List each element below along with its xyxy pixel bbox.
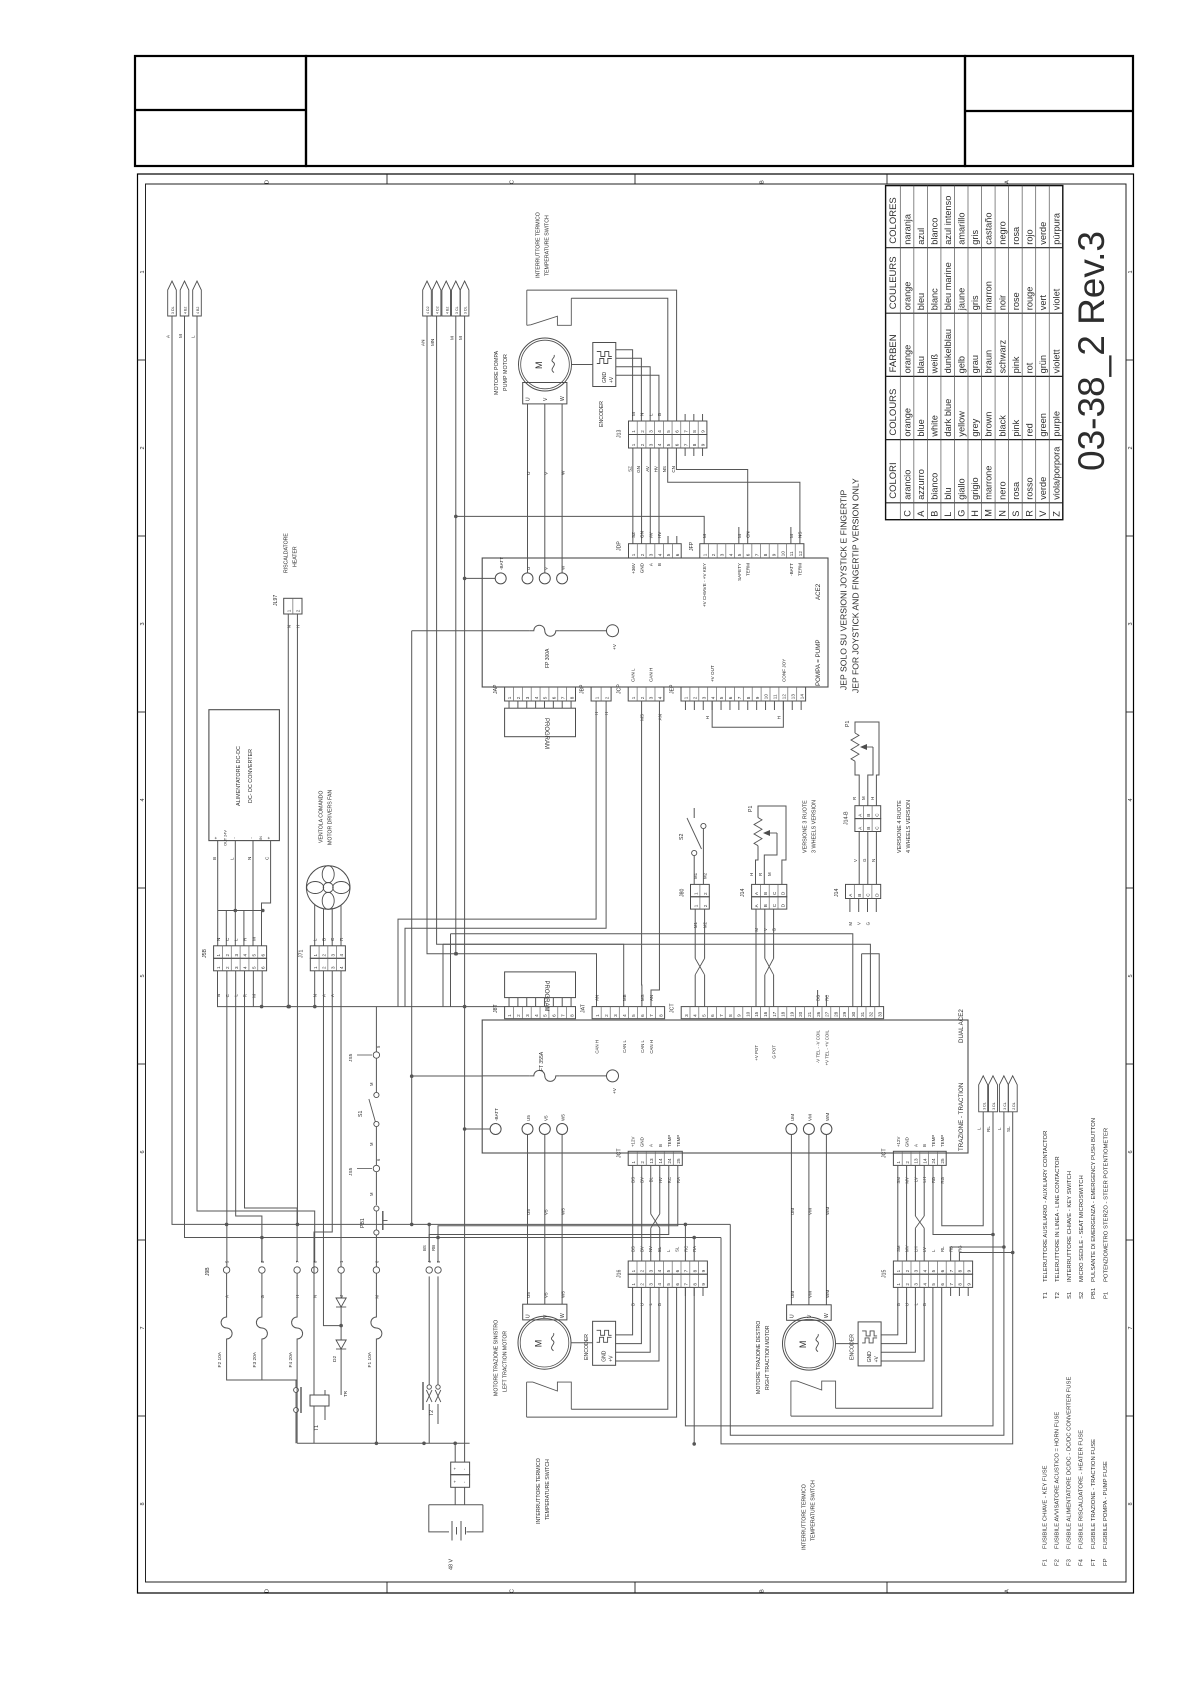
svg-text:2: 2 xyxy=(1128,446,1134,449)
svg-text:INTERRUTTORE CHIAVE - KEY SWIT: INTERRUTTORE CHIAVE - KEY SWITCH xyxy=(1067,1171,1073,1282)
svg-text:L: L xyxy=(666,1249,671,1252)
long horizontal wire A xyxy=(227,1223,731,1225)
svg-text:26: 26 xyxy=(816,1011,821,1017)
svg-text:32: 32 xyxy=(869,1011,874,1017)
svg-text:6: 6 xyxy=(746,553,751,556)
svg-text:1: 1 xyxy=(684,696,689,699)
svg-text:MOTOR DRIVERS FAN: MOTOR DRIVERS FAN xyxy=(328,790,334,845)
svg-text:+V TEL - +V COIL: +V TEL - +V COIL xyxy=(824,1029,829,1065)
svg-text:-: - xyxy=(231,837,236,839)
svg-text:OUT 24V: OUT 24V xyxy=(224,830,228,846)
svg-text:blu: blu xyxy=(943,488,953,500)
DC-DC converter box xyxy=(209,710,280,841)
svg-text:5: 5 xyxy=(666,553,671,556)
connector JCP xyxy=(628,687,664,701)
svg-text:FARBEN: FARBEN xyxy=(888,334,899,372)
svg-text:PUMP MOTOR: PUMP MOTOR xyxy=(503,354,509,391)
svg-text:azul: azul xyxy=(916,228,926,245)
svg-text:A: A xyxy=(848,893,853,897)
svg-text:SZ: SZ xyxy=(631,532,636,538)
svg-text:5: 5 xyxy=(719,696,724,699)
svg-text:J9B: J9B xyxy=(205,1267,211,1276)
svg-text:S: S xyxy=(1011,511,1021,517)
svg-text:B: B xyxy=(857,894,862,897)
svg-text:S1: S1 xyxy=(1067,1292,1073,1299)
svg-text:blanc: blanc xyxy=(930,288,940,310)
connector JBP xyxy=(591,687,611,701)
svg-text:27: 27 xyxy=(825,1011,830,1017)
svg-text:13: 13 xyxy=(790,694,795,700)
svg-text:blue: blue xyxy=(916,419,926,436)
svg-text:GND: GND xyxy=(602,372,608,384)
svg-text:grau: grau xyxy=(970,355,980,373)
svg-text:3 DL: 3 DL xyxy=(992,1102,996,1110)
svg-text:7: 7 xyxy=(140,1326,146,1329)
svg-text:5: 5 xyxy=(631,1014,636,1017)
svg-text:-BATT: -BATT xyxy=(499,557,504,570)
svg-text:VERSIONE 3 RUOTE: VERSIONE 3 RUOTE xyxy=(803,800,809,853)
svg-text:9: 9 xyxy=(737,1014,742,1017)
svg-text:11: 11 xyxy=(773,694,778,699)
svg-text:JCT: JCT xyxy=(882,1148,888,1158)
svg-text:C: C xyxy=(510,180,516,184)
svg-text:1: 1 xyxy=(507,696,512,699)
svg-text:17: 17 xyxy=(772,1011,777,1017)
svg-text:RG: RG xyxy=(957,1245,962,1252)
svg-text:U: U xyxy=(526,567,531,570)
connector J14-B (4 wheels) xyxy=(855,806,881,819)
svg-text:6: 6 xyxy=(675,1269,680,1272)
svg-text:16: 16 xyxy=(763,1011,768,1017)
svg-text:1: 1 xyxy=(631,430,636,433)
wire from flag 3DL xyxy=(172,316,227,1224)
svg-text:castaño: castaño xyxy=(984,213,994,245)
svg-text:F4: F4 xyxy=(1079,1558,1085,1566)
svg-text:8: 8 xyxy=(692,443,697,446)
svg-text:W: W xyxy=(561,470,567,475)
contactor T2 contacts xyxy=(422,1382,424,1410)
svg-text:6: 6 xyxy=(675,1283,680,1286)
svg-text:2: 2 xyxy=(516,696,521,699)
svg-text:7: 7 xyxy=(683,430,688,433)
svg-text:CAN L: CAN L xyxy=(631,668,636,682)
left traction motor xyxy=(518,1316,571,1369)
svg-text:2: 2 xyxy=(640,1283,645,1286)
wires J16 to encoder (left) xyxy=(615,1287,632,1335)
svg-text:WM: WM xyxy=(825,1113,830,1121)
svg-text:M: M xyxy=(178,334,183,338)
svg-text:1: 1 xyxy=(693,892,698,895)
svg-text:V: V xyxy=(807,1314,813,1318)
right encoder xyxy=(858,1322,881,1366)
svg-text:4: 4 xyxy=(657,1269,662,1272)
svg-text:G POT: G POT xyxy=(772,1045,777,1059)
svg-text:B: B xyxy=(866,814,871,817)
svg-text:3 DL: 3 DL xyxy=(982,1102,986,1110)
svg-text:JEP FOR JOYSTICK AND FINGERTIP: JEP FOR JOYSTICK AND FINGERTIP VERSION O… xyxy=(851,478,861,693)
svg-text:9: 9 xyxy=(701,1283,706,1286)
svg-text:2: 2 xyxy=(640,1161,645,1164)
svg-text:1: 1 xyxy=(631,696,636,699)
svg-text:U: U xyxy=(526,397,532,401)
svg-text:7: 7 xyxy=(1128,1326,1134,1329)
svg-text:H: H xyxy=(749,873,754,876)
battery connector xyxy=(451,1462,470,1475)
svg-text:dark blue: dark blue xyxy=(943,399,953,437)
svg-text:-V TEL - -V COIL: -V TEL - -V COIL xyxy=(816,1029,821,1063)
svg-text:7: 7 xyxy=(737,696,742,699)
J16 bottom stubs xyxy=(684,1287,686,1296)
svg-text:TEMPERATURE SWITCH: TEMPERATURE SWITCH xyxy=(545,215,551,276)
svg-text:5: 5 xyxy=(666,1283,671,1286)
fuse F2 10A xyxy=(226,1273,228,1310)
svg-text:M: M xyxy=(534,362,544,370)
svg-text:yellow: yellow xyxy=(957,411,967,437)
svg-text:-BATT: -BATT xyxy=(494,1108,499,1121)
svg-text:+36V: +36V xyxy=(631,562,636,574)
svg-text:8: 8 xyxy=(569,1014,574,1017)
svg-text:3: 3 xyxy=(234,954,239,957)
svg-text:L: L xyxy=(234,938,239,941)
svg-text:1: 1 xyxy=(339,1260,344,1263)
svg-text:rose: rose xyxy=(1011,292,1021,310)
wire NS J13 to JFP12 xyxy=(668,448,800,544)
svg-text:8: 8 xyxy=(746,696,751,699)
svg-text:naranja: naranja xyxy=(903,213,913,245)
svg-text:M: M xyxy=(631,412,636,416)
sheet inner border xyxy=(146,184,1127,1582)
svg-text:B: B xyxy=(763,892,768,895)
svg-text:Z: Z xyxy=(1051,511,1061,517)
svg-text:C: C xyxy=(875,826,880,830)
connector J13 xyxy=(629,421,707,435)
svg-text:TR: TR xyxy=(343,1390,348,1397)
svg-text:-: - xyxy=(462,1468,467,1470)
svg-text:G: G xyxy=(862,858,867,862)
svg-text:FUSIBILE ALIMENTATORE DC/DC -: FUSIBILE ALIMENTATORE DC/DC - DC/DC CONV… xyxy=(1067,1377,1073,1549)
svg-text:GND: GND xyxy=(640,562,645,573)
svg-text:4: 4 xyxy=(140,798,146,801)
svg-text:1: 1 xyxy=(631,1161,636,1164)
pump motor M1 xyxy=(519,338,572,391)
svg-text:D: D xyxy=(265,180,271,184)
svg-text:N: N xyxy=(216,994,221,997)
svg-text:8: 8 xyxy=(692,430,697,433)
svg-text:rouge: rouge xyxy=(1024,287,1034,311)
svg-text:13: 13 xyxy=(914,1158,919,1164)
svg-text:M: M xyxy=(798,1341,808,1349)
P1 wires to J14 xyxy=(756,846,759,885)
svg-text:5: 5 xyxy=(543,696,548,699)
right motor phase wires xyxy=(790,1135,792,1305)
title block left box xyxy=(135,56,306,166)
wire motor to encoder xyxy=(572,364,593,366)
traction controller box xyxy=(482,1020,968,1153)
svg-text:A: A xyxy=(754,891,759,895)
svg-text:9: 9 xyxy=(701,1269,706,1272)
connector J14 (3 wheels) xyxy=(752,884,787,896)
svg-text:F1 10A: F1 10A xyxy=(367,1351,373,1367)
connector JCT left (traction aux) xyxy=(628,1151,682,1165)
steer potentiometer P1 (4 wheels) xyxy=(851,733,859,761)
svg-text:+12V: +12V xyxy=(896,1137,901,1147)
svg-text:SL: SL xyxy=(1006,1126,1011,1132)
svg-text:W: W xyxy=(561,565,566,570)
svg-text:6: 6 xyxy=(940,1269,945,1272)
svg-text:2: 2 xyxy=(322,954,327,957)
svg-text:21: 21 xyxy=(807,1011,812,1017)
svg-text:1: 1 xyxy=(313,966,318,969)
svg-text:D: D xyxy=(265,1589,271,1593)
svg-text:pink: pink xyxy=(1011,356,1021,373)
svg-text:1: 1 xyxy=(631,443,636,446)
svg-text:4: 4 xyxy=(658,696,663,699)
svg-text:N: N xyxy=(247,857,252,860)
svg-text:NS: NS xyxy=(798,532,803,538)
svg-text:8: 8 xyxy=(958,1283,963,1286)
svg-text:orange: orange xyxy=(903,282,913,311)
svg-text:25: 25 xyxy=(940,1158,945,1164)
svg-text:U5: U5 xyxy=(526,1292,531,1298)
svg-text:LEFT TRACTION MOTOR: LEFT TRACTION MOTOR xyxy=(503,1331,509,1392)
svg-text:AV: AV xyxy=(648,531,653,538)
svg-text:púrpura: púrpura xyxy=(1051,212,1061,245)
svg-text:28: 28 xyxy=(833,1011,838,1017)
svg-text:noir: noir xyxy=(997,295,1007,310)
svg-text:HEATER: HEATER xyxy=(293,546,299,567)
svg-text:+V CHIAVE - +V KEY: +V CHIAVE - +V KEY xyxy=(702,563,707,607)
svg-text:MB: MB xyxy=(622,994,627,1001)
svg-text:viola/porpora: viola/porpora xyxy=(1051,446,1061,500)
svg-text:C: C xyxy=(772,903,777,907)
svg-text:JS5: JS5 xyxy=(348,1167,354,1176)
svg-text:1: 1 xyxy=(140,270,146,273)
svg-text:JS5: JS5 xyxy=(348,1053,354,1062)
svg-text:P1: P1 xyxy=(1103,1292,1109,1299)
svg-text:azzurro: azzurro xyxy=(916,469,926,500)
flag 3CL xyxy=(452,281,461,316)
wires J15 to encoder (right) xyxy=(881,1287,898,1335)
svg-text:TEMPERATURE SWITCH: TEMPERATURE SWITCH xyxy=(545,1459,551,1520)
svg-text:+V POT: +V POT xyxy=(754,1045,759,1061)
svg-text:T1: T1 xyxy=(314,1425,320,1431)
svg-text:2: 2 xyxy=(711,553,716,556)
svg-text:rosso: rosso xyxy=(1024,477,1034,499)
svg-text:brown: brown xyxy=(984,412,994,437)
fuse links to battery rail xyxy=(227,1372,298,1380)
wires JCP to JAT CAN xyxy=(641,701,643,1007)
svg-text:M: M xyxy=(984,509,994,517)
J14-4w stubs xyxy=(849,899,851,913)
svg-text:JCT: JCT xyxy=(670,1003,676,1013)
svg-text:L: L xyxy=(997,1127,1002,1130)
svg-text:F1: F1 xyxy=(1042,1559,1048,1566)
svg-text:7: 7 xyxy=(684,1269,689,1272)
svg-text:C: C xyxy=(265,856,270,860)
svg-text:9: 9 xyxy=(755,696,760,699)
svg-text:7: 7 xyxy=(949,1269,954,1272)
svg-text:MN: MN xyxy=(430,339,435,346)
svg-text:W5: W5 xyxy=(561,1291,566,1298)
svg-text:M: M xyxy=(369,1142,374,1146)
svg-text:3 CL: 3 CL xyxy=(1003,1102,1007,1110)
svg-text:1: 1 xyxy=(594,696,599,699)
key emergency column wires xyxy=(375,1007,377,1052)
svg-text:B: B xyxy=(866,827,871,830)
svg-text:3: 3 xyxy=(330,954,335,957)
svg-text:A: A xyxy=(916,510,926,517)
svg-text:7: 7 xyxy=(560,696,565,699)
svg-text:5: 5 xyxy=(252,966,257,969)
svg-text:N: N xyxy=(997,510,1007,517)
svg-text:H: H xyxy=(870,797,875,800)
J80 wires down with twist xyxy=(694,909,696,958)
svg-text:7: 7 xyxy=(754,553,759,556)
svg-text:+V: +V xyxy=(874,1355,880,1362)
svg-text:R: R xyxy=(852,797,857,800)
svg-text:6: 6 xyxy=(1128,1150,1134,1153)
svg-text:+: + xyxy=(267,836,272,839)
svg-text:TEMP: TEMP xyxy=(676,1135,681,1147)
connector J80 xyxy=(691,884,710,896)
UM VM WM terminals xyxy=(786,1124,797,1135)
wires JBP to seat bus xyxy=(398,701,596,1007)
svg-text:5: 5 xyxy=(701,1014,706,1017)
svg-text:J8T: J8T xyxy=(493,1004,499,1013)
svg-text:C: C xyxy=(330,937,335,941)
right switch wires xyxy=(836,1287,933,1408)
svg-text:TERM: TERM xyxy=(798,563,803,576)
svg-text:V: V xyxy=(543,471,549,475)
svg-text:4: 4 xyxy=(243,954,248,957)
svg-text:1: 1 xyxy=(896,1161,901,1164)
svg-text:green: green xyxy=(1038,413,1048,437)
svg-text:2: 2 xyxy=(140,446,146,449)
svg-text:JEP: JEP xyxy=(670,684,676,694)
svg-text:3: 3 xyxy=(701,696,706,699)
JEP stubs xyxy=(684,701,686,710)
svg-text:U: U xyxy=(790,1314,796,1318)
svg-text:VENTOLA COMANDO: VENTOLA COMANDO xyxy=(319,791,325,843)
svg-text:8: 8 xyxy=(658,1014,663,1017)
svg-text:13: 13 xyxy=(649,1158,654,1164)
svg-text:TERM: TERM xyxy=(746,563,751,576)
svg-text:DC- DC CONVERTER: DC- DC CONVERTER xyxy=(248,749,254,803)
wire from flag 4B2 xyxy=(185,316,262,1262)
P1-4w wires to J14-B xyxy=(855,761,859,806)
svg-text:WM: WM xyxy=(825,1207,830,1215)
wire flag to battery positive rail xyxy=(464,316,466,1007)
svg-text:RL: RL xyxy=(940,1246,945,1252)
svg-text:CAN L: CAN L xyxy=(622,1039,627,1052)
svg-text:B: B xyxy=(930,511,940,517)
svg-text:J13: J13 xyxy=(617,430,623,438)
svg-text:C: C xyxy=(510,1589,516,1593)
svg-text:2: 2 xyxy=(640,443,645,446)
svg-text:H: H xyxy=(970,510,980,517)
svg-text:1: 1 xyxy=(216,966,221,969)
PROGRAM box (pump) xyxy=(505,708,576,737)
svg-text:R: R xyxy=(758,873,763,876)
svg-text:FP 300A: FP 300A xyxy=(545,648,551,668)
flag 2DL right xyxy=(1008,1076,1017,1112)
svg-text:3 CL: 3 CL xyxy=(455,306,459,314)
svg-text:amarillo: amarillo xyxy=(957,213,967,245)
svg-text:R: R xyxy=(243,937,248,941)
fan motor xyxy=(306,866,350,910)
svg-text:B: B xyxy=(760,180,766,184)
wire motor to encoder left xyxy=(571,1342,593,1344)
svg-text:M: M xyxy=(848,922,853,926)
svg-text:S1: S1 xyxy=(358,1111,364,1117)
svg-text:GND: GND xyxy=(602,1350,608,1362)
-BATT terminal pump xyxy=(495,573,506,584)
right motor terminal box xyxy=(787,1305,832,1321)
svg-text:azul intenso: azul intenso xyxy=(943,196,953,245)
svg-text:+V: +V xyxy=(609,1355,615,1362)
fuse FP xyxy=(412,630,530,632)
svg-text:FT 355A: FT 355A xyxy=(539,1051,545,1071)
svg-text:03-38_2 Rev.3: 03-38_2 Rev.3 xyxy=(1071,231,1112,471)
svg-text:D2: D2 xyxy=(332,1356,338,1362)
svg-text:M: M xyxy=(767,872,772,876)
svg-text:3 WHEELS VERSION: 3 WHEELS VERSION xyxy=(812,800,818,853)
temperature switch (right motor) xyxy=(790,1381,792,1416)
svg-text:bleu: bleu xyxy=(916,293,926,310)
svg-text:verde: verde xyxy=(1038,222,1048,245)
J16 pins 7 8 wires up to horizontals xyxy=(684,1224,686,1261)
svg-text:CAN L: CAN L xyxy=(640,1039,645,1052)
diode D1 xyxy=(340,1273,342,1298)
svg-text:JCT: JCT xyxy=(617,1148,623,1158)
svg-text:8: 8 xyxy=(692,1283,697,1286)
svg-text:ENCODER: ENCODER xyxy=(584,1334,590,1360)
svg-text:J5B: J5B xyxy=(202,949,208,958)
contactor T1 aux contact xyxy=(294,1388,299,1393)
svg-text:gris: gris xyxy=(970,295,980,310)
fuse FT xyxy=(412,1075,483,1077)
svg-text:9: 9 xyxy=(966,1283,971,1286)
svg-text:4 B2: 4 B2 xyxy=(196,307,200,314)
svg-text:14: 14 xyxy=(799,694,804,700)
svg-text:DUAL ACE2: DUAL ACE2 xyxy=(958,1009,965,1043)
svg-text:V: V xyxy=(543,397,549,401)
svg-text:1: 1 xyxy=(702,553,707,556)
svg-text:MOTORE TRAZIONE SINISTRO: MOTORE TRAZIONE SINISTRO xyxy=(494,1320,500,1396)
svg-text:dunkelblau: dunkelblau xyxy=(943,329,953,373)
svg-text:3: 3 xyxy=(648,443,653,446)
wire M flag to JFP1 and bus xyxy=(455,316,457,954)
svg-text:25: 25 xyxy=(676,1158,681,1164)
svg-text:AN: AN xyxy=(421,340,426,346)
svg-text:W: W xyxy=(560,1313,566,1318)
svg-text:7: 7 xyxy=(649,1014,654,1017)
svg-text:A: A xyxy=(857,826,862,830)
svg-text:JL97: JL97 xyxy=(273,595,279,606)
svg-text:4 B2: 4 B2 xyxy=(184,307,188,314)
svg-text:nero: nero xyxy=(997,481,1007,499)
svg-text:6: 6 xyxy=(552,696,557,699)
encoder to J13 wires xyxy=(616,350,633,421)
svg-text:MICRO SEDILE - SEAT MICROSWITC: MICRO SEDILE - SEAT MICROSWITCH xyxy=(1079,1175,1085,1282)
svg-text:JCP: JCP xyxy=(617,684,623,694)
svg-text:rosa: rosa xyxy=(1011,481,1021,500)
J15 pins 7 8 wires xyxy=(951,1247,1004,1261)
svg-text:4: 4 xyxy=(657,430,662,433)
svg-text:N: N xyxy=(216,938,221,941)
steer potentiometer P1 (3 wheels) xyxy=(754,818,762,846)
svg-text:M: M xyxy=(458,336,463,340)
